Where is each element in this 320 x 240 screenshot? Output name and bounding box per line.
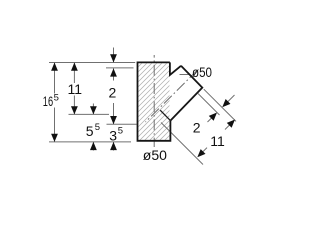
svg-text:ø50: ø50 <box>143 147 167 163</box>
svg-text:5: 5 <box>95 122 100 133</box>
svg-text:3: 3 <box>109 127 117 143</box>
svg-text:16: 16 <box>43 93 53 109</box>
svg-text:5: 5 <box>86 123 94 139</box>
svg-text:2: 2 <box>193 120 201 136</box>
svg-text:11: 11 <box>68 81 83 97</box>
svg-text:11: 11 <box>210 133 225 149</box>
svg-text:2: 2 <box>109 85 117 101</box>
svg-text:5: 5 <box>118 126 123 137</box>
svg-text:ø50: ø50 <box>192 64 212 80</box>
svg-text:5: 5 <box>54 92 59 103</box>
